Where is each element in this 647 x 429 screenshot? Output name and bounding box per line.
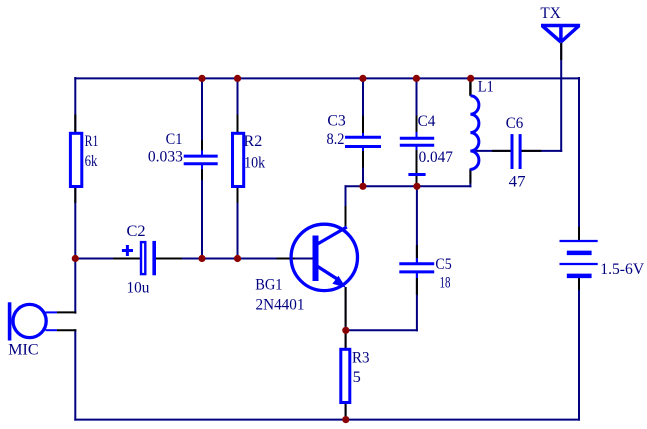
pin stub C3 bottom (362, 151, 364, 168)
junction C1 top (198, 75, 205, 82)
pin stub C4 bottom (416, 150, 418, 173)
svg-text:C3: C3 (327, 112, 345, 129)
svg-text:10u: 10u (127, 280, 150, 297)
wire L1 tap to C6 (470, 150, 510, 152)
svg-text:5: 5 (353, 369, 361, 386)
pin stub collector (345, 206, 347, 229)
svg-text:10k: 10k (244, 155, 265, 172)
wire antenna vertical (560, 43, 562, 152)
svg-text:0.047: 0.047 (419, 149, 453, 166)
wire R2 branch (237, 78, 239, 259)
junction emitter node (342, 327, 349, 334)
junction R2 top (234, 75, 241, 82)
junction C4 bottom (413, 183, 420, 190)
pin stub R3 bottom (345, 403, 347, 416)
pin stub battery bottom (578, 277, 580, 290)
wire bottom rail (74, 419, 580, 421)
junction C1 bottom (198, 255, 205, 262)
pin stub C2 left (113, 258, 140, 260)
junction L1 top (467, 75, 474, 82)
transistor Q1 (BG1) (291, 224, 357, 290)
resistor R1 (70, 133, 81, 186)
pin stub R1 top (74, 115, 76, 133)
wire tank rail (rail 2) (345, 185, 472, 187)
svg-text:C6: C6 (506, 115, 524, 132)
svg-text:47: 47 (509, 173, 526, 190)
pin stub emitter (345, 287, 347, 327)
svg-text:1.5-6V: 1.5-6V (600, 261, 644, 278)
pin stub L1 bottom (469, 170, 471, 184)
wire C1 branch (201, 78, 203, 155)
junction R1/C2 (72, 255, 79, 262)
pin stub R1 bottom (74, 187, 76, 204)
resistor R2 (233, 133, 244, 186)
pin stub C6 right (521, 150, 541, 152)
wire C4 branch (416, 78, 418, 138)
pin stub C5 top (416, 245, 418, 258)
wire C6 to antenna (521, 150, 562, 152)
junction R3 bottom (342, 416, 349, 423)
svg-text:C1: C1 (166, 131, 183, 148)
pin stub C5 bottom (416, 278, 418, 295)
pin stub R3 top (345, 334, 347, 349)
wire emitter drop to R3 and ground (345, 287, 347, 421)
svg-text:TX: TX (540, 5, 561, 22)
wire MIC bottom lead (46, 329, 58, 331)
pin stub C4 below bar (416, 176, 418, 183)
svg-text:6k: 6k (85, 153, 98, 170)
pin stub C6 left (492, 150, 511, 152)
pin stub antenna (560, 43, 562, 60)
wire C5 branch vertical (416, 186, 418, 263)
svg-text:0.033: 0.033 (148, 149, 183, 166)
wire left vertical (R1 branch) (74, 77, 76, 314)
pin stub R2 top (237, 115, 239, 133)
wire battery bottom lead (578, 276, 580, 421)
svg-text:8.2: 8.2 (327, 131, 345, 148)
svg-text:MIC: MIC (8, 342, 38, 359)
battery BT1 (560, 241, 598, 276)
wire left vertical lower (MIC ground drop) (74, 329, 76, 420)
wire MIC top lead (46, 311, 58, 313)
svg-text:18: 18 (440, 274, 451, 291)
wire base rail (C2 to transistor) (74, 258, 140, 260)
pin stub base (277, 258, 295, 260)
junction C4 top (413, 75, 420, 82)
svg-text:R2: R2 (244, 133, 263, 150)
svg-text:R1: R1 (85, 133, 99, 150)
microphone MIC (10, 302, 47, 340)
svg-text:C5: C5 (435, 256, 451, 273)
capacitor C3 (345, 133, 381, 151)
pin stub C2 right (156, 258, 182, 260)
capacitor C1 (184, 150, 218, 169)
pin stub C1 top (201, 140, 203, 150)
capacitor C5 (399, 258, 434, 278)
wire C3 branch (362, 78, 364, 137)
svg-text:C2: C2 (127, 223, 146, 240)
svg-text:C4: C4 (418, 113, 436, 130)
svg-text:R3: R3 (352, 349, 370, 366)
pin stub C4 top (416, 116, 418, 132)
pin stub C3 top (362, 116, 364, 133)
pin stub C1 bottom (201, 169, 203, 180)
antenna TX (541, 26, 580, 43)
junction C3 top (359, 75, 366, 82)
pin stub battery top (578, 227, 580, 240)
junction R2 bottom (234, 255, 241, 262)
wire top rail (74, 77, 580, 79)
capacitor C2 (122, 241, 154, 275)
svg-text:L1: L1 (478, 79, 494, 96)
wire collector drop (345, 185, 347, 228)
wire C5 bottom link to emitter (345, 329, 418, 331)
svg-text:BG1: BG1 (255, 277, 282, 294)
wire battery feed drop (top right) (578, 77, 580, 241)
wire L1 bottom lead (469, 169, 471, 188)
pin stub R2 bottom (237, 187, 239, 204)
capacitor C4 (400, 132, 434, 175)
junction C3 bottom (359, 183, 366, 190)
svg-text:2N4401: 2N4401 (256, 297, 305, 314)
resistor R3 (341, 349, 350, 402)
capacitor C6 (512, 134, 520, 169)
inductor L1 (469, 79, 471, 96)
